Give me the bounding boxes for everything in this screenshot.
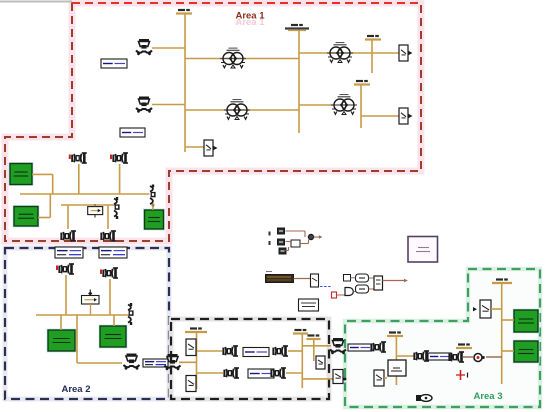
svg-text:Area 3: Area 3 bbox=[473, 391, 502, 402]
svg-text:Area 1: Area 1 bbox=[235, 11, 265, 22]
svg-text:Area 2: Area 2 bbox=[61, 384, 90, 395]
